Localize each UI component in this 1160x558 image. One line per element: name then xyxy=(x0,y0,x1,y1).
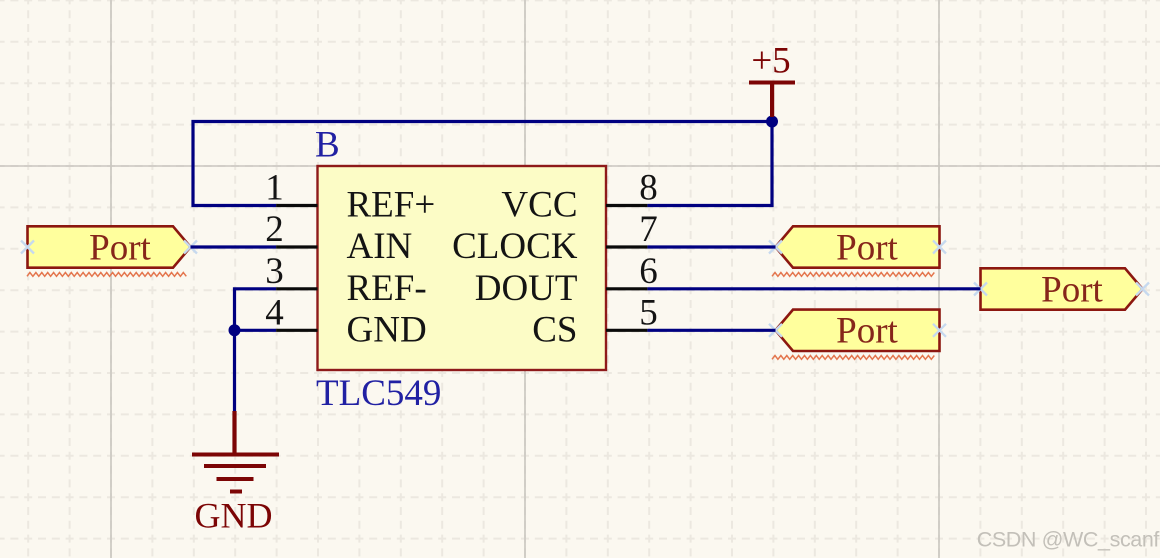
IC U1 TLC549 body xyxy=(318,166,607,370)
junction node GND xyxy=(229,324,241,336)
no-ERC squiggle under port P2 xyxy=(772,273,934,277)
wire CLOCK (pin7) to port P2 xyxy=(647,245,775,248)
power port +5 xyxy=(749,41,795,118)
svg-text:7: 7 xyxy=(639,209,658,250)
svg-text:B: B xyxy=(315,125,340,166)
svg-text:TLC549: TLC549 xyxy=(316,373,441,414)
wire VCC (pin8) to +5 node xyxy=(647,122,772,206)
svg-text:8: 8 xyxy=(639,168,658,209)
power port GND (earth symbol) xyxy=(192,411,279,536)
pin 1 (REF+) xyxy=(265,168,435,226)
svg-text:Port: Port xyxy=(89,227,151,268)
svg-text:GND: GND xyxy=(195,496,273,536)
pin 7 (CLOCK) xyxy=(452,209,658,267)
svg-text:3: 3 xyxy=(265,251,284,292)
svg-text:2: 2 xyxy=(265,209,284,250)
port P4 "Port" (CS) xyxy=(776,310,940,352)
svg-text:4: 4 xyxy=(265,292,284,333)
svg-text:5: 5 xyxy=(639,292,658,333)
no-ERC squiggle under port P1 xyxy=(27,273,186,277)
connection marker at port P1 tip xyxy=(184,241,197,254)
wire REF- (pin3) down to GND xyxy=(235,289,277,413)
svg-text:CS: CS xyxy=(532,309,577,350)
svg-text:+5: +5 xyxy=(751,41,790,82)
svg-text:DOUT: DOUT xyxy=(475,268,578,309)
connection marker at port P3 left edge xyxy=(974,283,987,296)
connection marker at port P2 right edge xyxy=(933,241,946,254)
svg-text:REF-: REF- xyxy=(347,268,427,309)
port P2 "Port" (CLOCK) xyxy=(776,226,940,268)
pin 6 (DOUT) xyxy=(475,251,658,309)
connection marker at port P4 right edge xyxy=(933,324,946,337)
connection marker at port P1 left edge xyxy=(21,241,34,254)
wire GND pin4 to junction xyxy=(235,329,277,332)
pin 5 (CS) xyxy=(532,292,658,350)
no-ERC squiggle under port P4 xyxy=(772,356,934,360)
wire port P1 to AIN (pin2) xyxy=(191,245,277,248)
wire CS (pin5) to port P4 xyxy=(647,329,775,332)
pin 3 (REF-) xyxy=(265,251,426,309)
pin 4 (GND) xyxy=(265,292,426,350)
pin 8 (VCC) xyxy=(501,168,657,226)
svg-text:REF+: REF+ xyxy=(347,185,436,226)
svg-text:Port: Port xyxy=(836,227,898,268)
port P3 "Port" (DOUT) xyxy=(981,268,1143,310)
svg-text:Port: Port xyxy=(1041,269,1103,310)
svg-text:Port: Port xyxy=(836,311,898,352)
junction node +5 xyxy=(766,116,778,128)
svg-text:CSDN @WC_scanf: CSDN @WC_scanf xyxy=(977,528,1160,552)
svg-text:6: 6 xyxy=(639,251,658,292)
svg-text:AIN: AIN xyxy=(347,226,413,267)
pin 2 (AIN) xyxy=(265,209,412,267)
connection marker at port P3 tip xyxy=(1136,283,1149,296)
svg-text:1: 1 xyxy=(265,168,284,209)
connection marker at port P4 tip xyxy=(769,324,782,337)
wire REF+ (pin1) up and across to +5 node xyxy=(193,122,772,206)
connection marker at port P2 tip xyxy=(769,241,782,254)
svg-text:CLOCK: CLOCK xyxy=(452,226,578,267)
svg-text:VCC: VCC xyxy=(501,185,577,226)
wire DOUT (pin6) to port P3 xyxy=(647,287,980,290)
svg-text:GND: GND xyxy=(347,309,427,350)
port P1 "Port" (AIN input) xyxy=(28,226,191,268)
